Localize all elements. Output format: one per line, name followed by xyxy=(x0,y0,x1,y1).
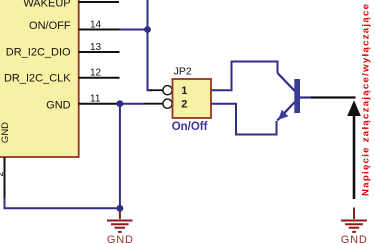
wire: JP2 pin1 to collector branch xyxy=(211,62,278,91)
svg-text:14: 14 xyxy=(90,19,102,30)
ground GND (center) xyxy=(107,212,133,232)
wire: collector diagonal into transistor Q1 xyxy=(278,73,295,91)
svg-text:DR_I2C_DIO: DR_I2C_DIO xyxy=(6,47,71,59)
annotation arrow head (up) xyxy=(347,100,361,116)
pin 14 ON/OFF xyxy=(29,19,120,32)
svg-text:ON/OFF: ON/OFF xyxy=(29,20,71,32)
emitter arrow of transistor Q1 xyxy=(278,110,288,120)
annotation arrow shaft xyxy=(353,113,356,199)
wire: junction B down to ground rail xyxy=(119,104,121,209)
svg-text:GND: GND xyxy=(46,99,71,111)
svg-text:2: 2 xyxy=(0,171,6,176)
connector JP2 pin stubs xyxy=(144,90,163,104)
junction dot C (119.9,208.3) xyxy=(117,205,124,212)
svg-text:12: 12 xyxy=(90,68,102,79)
pin 11 GND xyxy=(46,94,120,112)
wire: emitter diagonal of transistor Q1 xyxy=(277,102,295,121)
wire: JP2 pin2 to emitter branch xyxy=(211,104,277,135)
svg-text:JP2: JP2 xyxy=(174,66,192,78)
wire: pin14 to junction xyxy=(120,29,148,31)
svg-text:GND: GND xyxy=(107,234,134,244)
pin 13 DR_I2C_DIO xyxy=(6,42,120,59)
svg-text:2: 2 xyxy=(181,99,187,111)
pin 2 GND (bottom edge, rotated) xyxy=(0,122,11,199)
connector JP2 body xyxy=(173,79,212,118)
svg-text:GND: GND xyxy=(0,122,11,143)
junction dot A (147.5,29.5) xyxy=(144,26,151,33)
svg-text:1: 1 xyxy=(181,85,187,97)
svg-text:11: 11 xyxy=(90,94,101,105)
svg-text:Napięcie załączające/wyłączają: Napięcie załączające/wyłączające xyxy=(361,4,372,196)
svg-text:DR_I2C_CLK: DR_I2C_CLK xyxy=(4,72,71,84)
svg-text:GND: GND xyxy=(341,234,368,244)
transistor Q1 base bar xyxy=(294,79,300,113)
svg-text:On/Off: On/Off xyxy=(172,121,208,133)
wire: junction down then right into JP2 pin 1 xyxy=(148,30,153,91)
pin 12 DR_I2C_CLK xyxy=(4,68,120,85)
wire: ground rail from IC bottom pin xyxy=(5,198,120,208)
wire: base stub (blue) xyxy=(300,96,311,98)
IC U1 body xyxy=(0,0,79,157)
annotation line: base to control node (black) xyxy=(311,96,356,98)
connector JP2 pin circle 1 xyxy=(163,86,172,95)
connector JP2 pin circle 2 xyxy=(163,99,172,108)
wire: top feed vertical into pin 14 net xyxy=(147,0,149,30)
ground GND (right) xyxy=(341,208,367,232)
svg-text:WAKEUP: WAKEUP xyxy=(23,0,70,10)
junction dot B (119.9,103.7) xyxy=(117,100,124,107)
pin WAKEUP xyxy=(23,0,119,10)
wire: pin11 to JP2 pin 2 xyxy=(120,103,144,105)
svg-text:13: 13 xyxy=(90,42,102,53)
